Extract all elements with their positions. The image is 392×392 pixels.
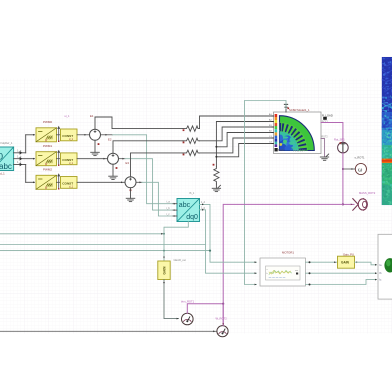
wire E1 current signal xyxy=(101,134,174,204)
wire shaft to speed sensor top xyxy=(222,304,224,326)
bus id feedback to left xyxy=(0,250,211,252)
wire motor top to MOTOR1 in3 (speed feedback) xyxy=(245,101,287,285)
MOTOR1 output wires xyxy=(306,262,377,284)
node red dot R3 xyxy=(183,154,185,156)
wire E1 phase to R1 xyxy=(95,117,183,129)
svg-text:1_a: 1_a xyxy=(17,149,22,153)
svg-text:ROT2: ROT2 xyxy=(322,136,329,138)
bus theta feedback to left xyxy=(0,233,165,235)
wire U2 out d to bus and MOTOR1 in1 xyxy=(200,204,257,262)
resistor R2 xyxy=(183,138,200,143)
wire to sensor s_ROT1 xyxy=(342,168,355,170)
FEM motor model M1 xyxy=(269,112,323,154)
gain block GEAR xyxy=(158,257,170,280)
ground below E1 xyxy=(91,140,100,155)
PWM modulator PWM1 xyxy=(33,152,57,166)
PWM modulator PWM0 xyxy=(33,128,57,142)
wire E2 current signal xyxy=(119,158,174,210)
wire motor shaft to speed source xyxy=(321,123,343,143)
svg-text:s_ROT1: s_ROT1 xyxy=(355,156,366,160)
pin labels xyxy=(269,113,273,144)
svg-text:Gain_PU: Gain_PU xyxy=(343,252,354,256)
svg-text:GAIN: GAIN xyxy=(341,261,350,265)
wire shaft net left and down xyxy=(223,204,343,325)
svg-text:E3: E3 xyxy=(126,161,130,165)
svg-text:d_1: d_1 xyxy=(69,186,74,189)
dq0-to-abc transform U1 xyxy=(0,147,14,171)
node out d marks xyxy=(201,201,206,205)
svg-text:d_1: d_1 xyxy=(69,138,74,141)
wire U1 output pins xyxy=(14,135,35,183)
node 1_c xyxy=(17,160,22,166)
bus speed ref from left xyxy=(0,330,217,332)
ground below E3 xyxy=(126,188,135,202)
wire inertia to shaft net xyxy=(342,203,354,205)
wire R2 to motor pin B1 xyxy=(200,127,274,141)
controlled source E1 xyxy=(90,129,101,145)
abc-to-dq0 transform U2 xyxy=(177,199,200,222)
rotor xyxy=(280,132,299,151)
svg-text:W_ROT2: W_ROT2 xyxy=(216,316,228,320)
speed sensor W_ROT2 xyxy=(217,326,228,337)
svg-text:PWM0: PWM0 xyxy=(43,120,52,124)
wire gain to scope in1 xyxy=(355,262,377,265)
svg-text:abc: abc xyxy=(179,202,191,209)
wire CONST to E2 xyxy=(77,158,108,160)
wire angle sensor top to shaft net xyxy=(187,303,224,314)
svg-text:PWM1: PWM1 xyxy=(43,144,52,148)
node junction N1 xyxy=(215,146,217,148)
scope block SCOPE1 xyxy=(375,234,392,299)
svg-text:MAG: MAG xyxy=(278,148,284,152)
node red dot R2 xyxy=(183,142,185,144)
sensor s_ROT1 xyxy=(355,163,366,174)
ground rotational reference xyxy=(320,154,328,160)
svg-text:GEAR_out: GEAR_out xyxy=(174,258,187,262)
svg-text:d_1: d_1 xyxy=(69,162,74,165)
wire PWM2 to CONST junction xyxy=(57,174,61,189)
wire R3 to motor pin C1 xyxy=(200,138,274,153)
constant block CONST row1 xyxy=(61,129,78,141)
wire E2 phase to R2 xyxy=(113,141,183,153)
constant block CONST row3 xyxy=(61,177,78,189)
gain block Gain_PU xyxy=(334,256,358,268)
svg-text:1_c: 1_c xyxy=(17,160,22,164)
svg-text:VdqRef_1: VdqRef_1 xyxy=(0,141,13,145)
node junction N2 xyxy=(215,156,217,158)
svg-text:wm: wm xyxy=(295,270,298,272)
ground below E2 xyxy=(109,164,118,179)
svg-text:d_1: d_1 xyxy=(0,172,5,176)
resistor R1 xyxy=(183,126,200,131)
wire R1 to motor pin A1 xyxy=(200,116,274,129)
svg-text:PWM2: PWM2 xyxy=(43,168,52,172)
wire neutral bus xyxy=(216,122,273,167)
controlled source E3 xyxy=(125,177,136,191)
wire speed source down xyxy=(342,153,344,205)
svg-text:1_d: 1_d xyxy=(201,201,206,204)
spectrogram image xyxy=(382,57,392,205)
svg-text:SC6R Model1_1: SC6R Model1_1 xyxy=(289,108,310,112)
label MAG xyxy=(275,148,284,152)
wire gain to angle sensor xyxy=(163,280,178,320)
svg-text:MASS_ROT2: MASS_ROT2 xyxy=(359,191,376,195)
svg-text:dq0: dq0 xyxy=(0,152,3,162)
svg-text:0 0.02 0.04: 0 0.02 0.04 xyxy=(293,151,305,153)
resistor R4 neutral xyxy=(214,166,219,184)
svg-text:abc: abc xyxy=(0,162,12,171)
wire CONST to E1 xyxy=(77,134,90,136)
stator slots xyxy=(280,123,307,150)
airgap arc xyxy=(280,131,300,151)
stator yoke xyxy=(280,116,315,151)
wire motor rot ref to ground xyxy=(321,139,325,158)
svg-text:dq0: dq0 xyxy=(186,214,198,221)
wire U2 out q to bus and MOTOR1 in2 xyxy=(200,210,257,273)
svg-text:GAIN: GAIN xyxy=(163,266,167,275)
wire PWM0 to CONST junction xyxy=(57,127,61,142)
wire E3 current signal xyxy=(136,181,173,216)
rotational damper R_LOAD xyxy=(322,117,329,124)
bus iq feedback to left xyxy=(0,244,206,246)
node i_c xyxy=(166,213,177,217)
MOTOR1 output junctions xyxy=(309,261,311,285)
angle sensor thm_ROT1 xyxy=(182,313,194,325)
svg-text:ui_1: ui_1 xyxy=(65,114,70,118)
svg-text:thm_ROT1: thm_ROT1 xyxy=(181,299,195,303)
svg-text:Rot_SP1: Rot_SP1 xyxy=(334,137,345,141)
node red dot R1 xyxy=(183,129,185,131)
motor top pin xyxy=(284,104,289,112)
node i_a xyxy=(166,201,177,205)
pin stubs xyxy=(272,116,323,144)
controlled source E2 xyxy=(108,153,119,169)
wire CONST to E3 xyxy=(77,181,125,183)
PWM modulator PWM2 xyxy=(33,175,57,189)
wire PWM1 to CONST junction xyxy=(57,151,61,166)
mechanical model MOTOR1 xyxy=(260,258,306,286)
node 1_b xyxy=(17,154,22,160)
node out q marks xyxy=(201,207,206,211)
node i_b xyxy=(166,207,177,211)
constant block CONST row2 xyxy=(61,153,78,165)
MOTOR1 input arrows xyxy=(255,261,257,285)
node 1_a xyxy=(17,149,22,155)
svg-text:IS_1: IS_1 xyxy=(189,191,195,195)
stator teeth ring xyxy=(280,122,308,150)
svg-text:E1: E1 xyxy=(90,114,94,118)
rotational inertia MASS_ROT2 xyxy=(353,199,368,211)
svg-text:1_b: 1_b xyxy=(17,154,22,158)
svg-text:MOTOR1: MOTOR1 xyxy=(282,250,294,254)
wire E3 phase to R3 xyxy=(131,153,184,177)
colorbar xyxy=(275,114,278,147)
wire U2 theta pin down to gain chain xyxy=(164,222,188,262)
svg-text:E2: E2 xyxy=(108,137,112,141)
resistor R3 xyxy=(183,150,200,155)
node red dot R4 xyxy=(213,164,215,166)
rotational speed source W1 xyxy=(338,142,349,153)
svg-text:1_q: 1_q xyxy=(201,207,206,210)
svg-text:ω: ω xyxy=(358,167,363,173)
ground below R4 xyxy=(212,184,220,192)
